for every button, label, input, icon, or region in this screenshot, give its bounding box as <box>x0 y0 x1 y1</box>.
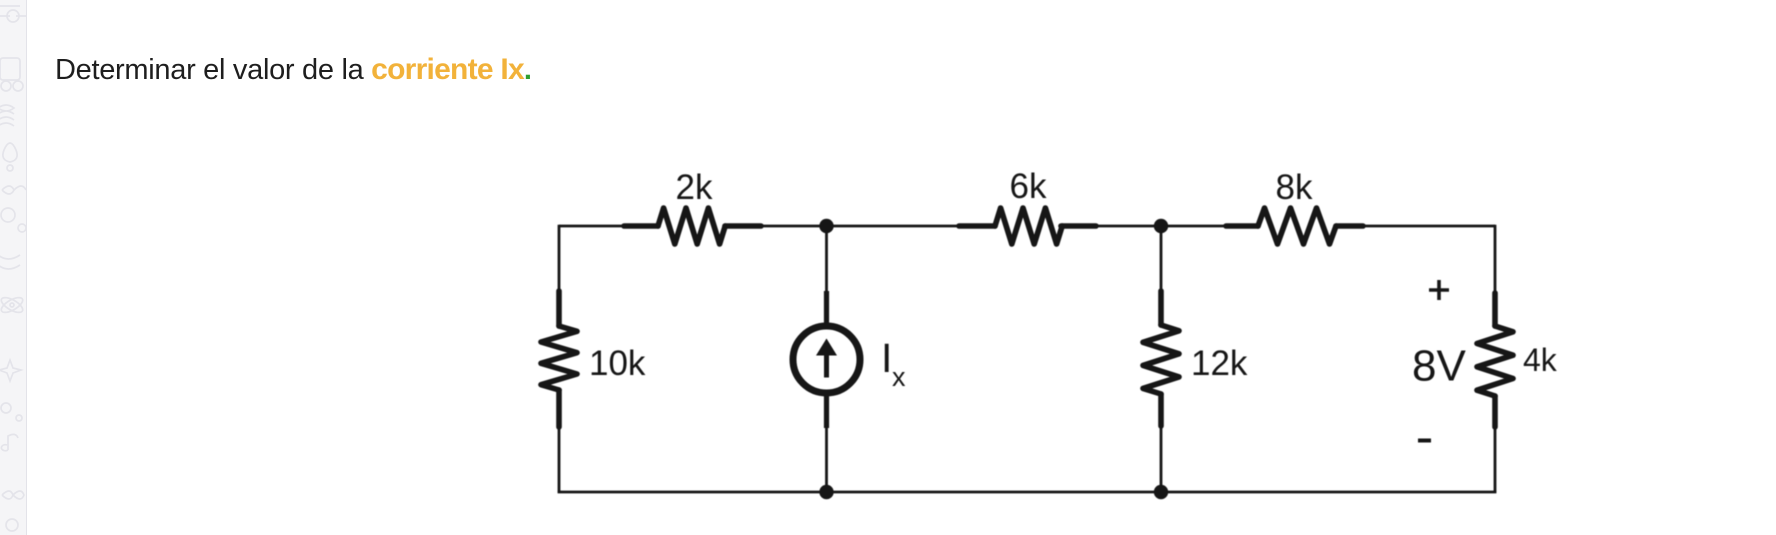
minus polarity mark of source 8V <box>1418 439 1431 443</box>
current source I1 (circle with up arrow) <box>793 291 860 428</box>
wire top rail from R 8k to right corner <box>1336 225 1495 228</box>
wire top rail between node A / 6k / node B <box>1061 225 1258 228</box>
plus polarity mark of source 8V <box>1429 280 1449 300</box>
node A bottom junction dot <box>819 485 833 499</box>
value label 10k <box>589 344 646 383</box>
wire node B branch lower <box>1160 425 1163 492</box>
wire right rail lower <box>1494 426 1497 493</box>
resistor R1 2k (horizontal, top left) <box>624 208 761 244</box>
current label Ix <box>881 335 906 392</box>
resistor R2 6k (horizontal, top middle) <box>959 208 1096 244</box>
svg-text:12k: 12k <box>1191 344 1248 383</box>
node B bottom junction dot <box>1154 485 1168 499</box>
node B top junction dot <box>1154 219 1168 233</box>
node A top junction dot <box>819 219 833 233</box>
svg-text:8k: 8k <box>1276 168 1313 207</box>
wire right rail upper <box>1494 225 1497 294</box>
value label 6k <box>1010 167 1047 206</box>
value label 8V <box>1412 342 1466 391</box>
heading text <box>55 55 532 85</box>
value label 8k <box>1276 168 1313 207</box>
wire node A branch lower <box>825 427 828 492</box>
svg-text:I: I <box>881 335 892 381</box>
resistor R3 8k (horizontal, top right) <box>1226 208 1363 244</box>
wire top rail between R 2k and node A <box>725 225 995 228</box>
wire left rail lower <box>558 426 561 493</box>
wire node B branch upper <box>1160 226 1163 292</box>
wire left rail upper <box>558 225 561 292</box>
resistor R6 4k (vertical, right rail) <box>1477 293 1513 427</box>
svg-text:8V: 8V <box>1412 342 1466 391</box>
resistor R5 12k (vertical, node B branch) <box>1143 291 1179 426</box>
left decorative sidebar strip <box>0 0 27 535</box>
resistor R4 10k (vertical, left branch) <box>541 291 577 427</box>
svg-text:10k: 10k <box>589 344 646 383</box>
wire top rail left segment (left corner to R 2k) <box>559 225 658 228</box>
wire bottom rail <box>558 491 1497 494</box>
value label 4k <box>1523 342 1558 378</box>
svg-text:x: x <box>892 362 906 392</box>
svg-text:6k: 6k <box>1010 167 1047 206</box>
svg-text:2k: 2k <box>676 168 713 207</box>
value label 2k <box>676 168 713 207</box>
svg-text:4k: 4k <box>1523 342 1558 378</box>
wire node A branch upper <box>825 226 828 292</box>
value label 12k <box>1191 344 1248 383</box>
